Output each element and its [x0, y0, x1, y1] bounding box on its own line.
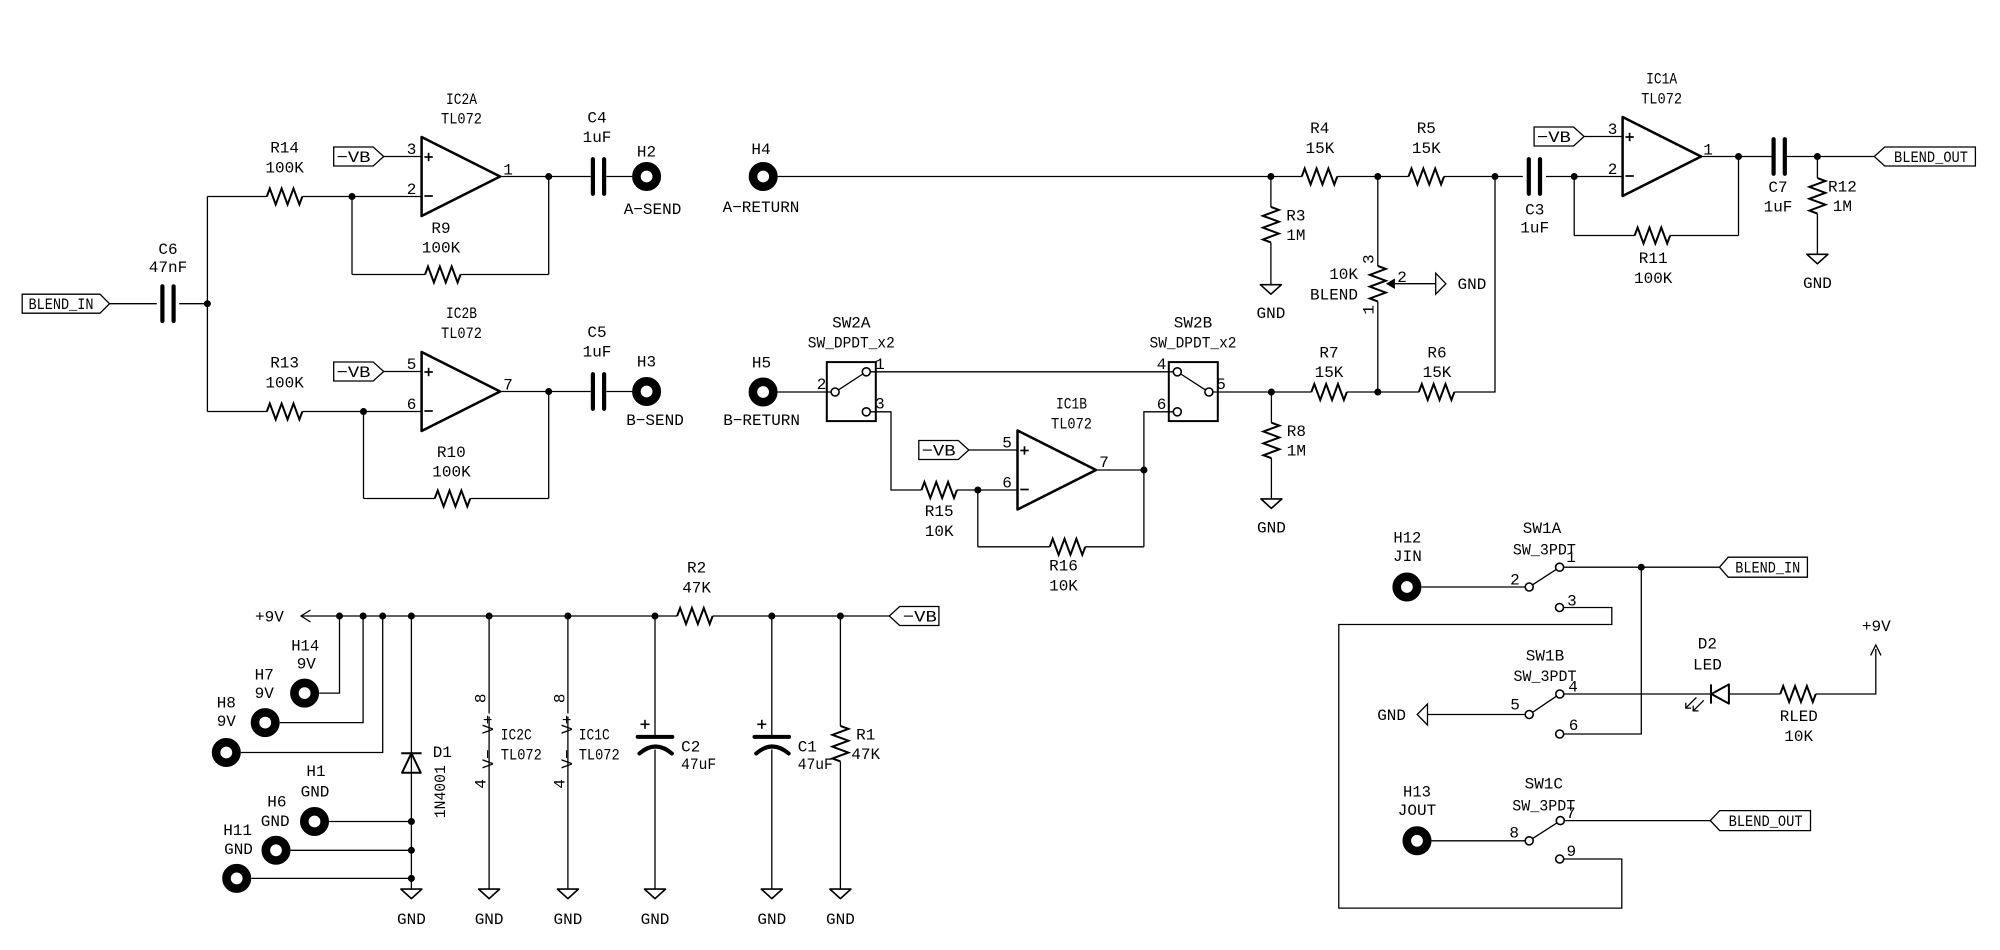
diode D1 1N4001 — [401, 616, 452, 889]
svg-text:IC1B: IC1B — [1056, 396, 1087, 414]
svg-text:+9V: +9V — [1862, 618, 1891, 636]
svg-text:D1: D1 — [433, 744, 452, 762]
svg-text:5: 5 — [1216, 376, 1226, 394]
svg-text:GND: GND — [1458, 276, 1487, 294]
svg-text:H4: H4 — [751, 141, 770, 159]
wire node riser to SW1B pin6 — [1564, 567, 1641, 734]
wire H6 to D1 line — [291, 849, 412, 851]
svg-text:D2: D2 — [1698, 636, 1717, 654]
wire R4 to node — [1337, 176, 1408, 178]
svg-text:2: 2 — [817, 376, 827, 394]
svg-text:IC1A: IC1A — [1646, 71, 1677, 89]
ground below D1 — [397, 889, 426, 929]
wire R2 to -VB tag — [713, 615, 890, 617]
svg-text:R5: R5 — [1417, 120, 1436, 138]
wire feedback bottom left — [364, 498, 435, 500]
svg-text:RLED: RLED — [1780, 708, 1818, 726]
svg-text:A−SEND: A−SEND — [624, 201, 682, 219]
wire node to pin 6 — [364, 411, 422, 413]
power symbol +9V rail — [255, 609, 311, 627]
wire SW1A pin3 loop to SW1C pin9 — [1339, 608, 1622, 909]
svg-text:V−: V− — [559, 749, 577, 768]
node IC2C V+ — [486, 613, 493, 620]
wire C5 to H3 — [606, 391, 632, 393]
svg-text:9V: 9V — [217, 713, 237, 731]
net label BLEND_OUT at SW1C — [1710, 811, 1810, 832]
svg-text:B−RETURN: B−RETURN — [723, 412, 800, 430]
svg-text:−VB: −VB — [922, 443, 956, 461]
svg-text:GND: GND — [641, 911, 670, 929]
svg-text:A−RETURN: A−RETURN — [723, 199, 800, 217]
op-amp power unit IC2C TL072 — [473, 616, 542, 889]
node IC1A inverting input — [1571, 173, 1578, 180]
hole H8 9V — [216, 695, 236, 763]
wire SW1B pin4 to LED — [1564, 693, 1711, 695]
svg-text:C6: C6 — [158, 241, 177, 259]
node H14 riser — [336, 613, 343, 620]
svg-text:SW_DPDT_x2: SW_DPDT_x2 — [808, 335, 895, 353]
capacitor C4 1uF — [583, 109, 612, 193]
wire R13 to node — [302, 411, 363, 413]
switch SW1C SW_3PDT — [1512, 775, 1575, 863]
wire H4 to R4 — [778, 176, 1271, 178]
wire R6 to riser — [1454, 177, 1495, 393]
svg-text:47nF: 47nF — [149, 259, 187, 277]
wire RLED to +9V — [1816, 649, 1876, 694]
node R8 tap — [1268, 389, 1275, 396]
svg-text:H2: H2 — [637, 144, 656, 162]
op-amp power unit IC1C TL072 — [551, 616, 619, 889]
op-amp IC1B TL072 — [1018, 396, 1097, 510]
svg-text:2: 2 — [407, 181, 417, 199]
svg-text:1M: 1M — [1287, 443, 1306, 461]
svg-text:2: 2 — [1510, 572, 1520, 590]
svg-text:GND: GND — [261, 813, 290, 831]
power tag -VB for IC2B — [334, 362, 384, 382]
svg-text:−VB: −VB — [337, 364, 371, 382]
node C2 top — [652, 613, 659, 620]
svg-text:8: 8 — [551, 693, 569, 703]
svg-text:IC2A: IC2A — [446, 91, 477, 109]
ground below R3 — [1256, 285, 1285, 324]
wire C4 to H2 — [606, 176, 632, 178]
hole H4 A-RETURN — [723, 141, 800, 217]
hole H14 9V — [291, 638, 319, 704]
svg-text:JIN: JIN — [1393, 548, 1422, 566]
ground below C2 — [641, 889, 670, 929]
svg-text:100K: 100K — [1634, 270, 1673, 288]
svg-text:1: 1 — [1566, 549, 1576, 567]
wire SW1C pin7 to BLEND_OUT — [1565, 820, 1711, 822]
resistor R2 47K — [677, 559, 713, 624]
wire feedback right riser — [548, 177, 550, 275]
svg-text:−VB: −VB — [337, 149, 371, 167]
svg-text:BLEND_OUT: BLEND_OUT — [1729, 813, 1803, 831]
svg-text:H14: H14 — [291, 638, 319, 656]
wire H12 to SW1A — [1422, 586, 1526, 588]
node C1 top — [768, 613, 775, 620]
svg-text:5: 5 — [1002, 435, 1012, 453]
wire feedback bottom left — [978, 546, 1050, 548]
wire H1 to D1 line — [329, 821, 411, 823]
capacitor C1 47uF polarized — [755, 616, 833, 889]
svg-text:9V: 9V — [297, 656, 317, 674]
svg-text:−VB: −VB — [903, 609, 937, 627]
switch SW2B SW_DPDT_x2 — [1150, 315, 1237, 422]
svg-text:100K: 100K — [265, 374, 304, 392]
svg-text:TL072: TL072 — [441, 325, 482, 343]
ground below R8 — [1257, 499, 1286, 538]
capacitor C3 1uF — [1520, 159, 1549, 237]
svg-text:IC1C: IC1C — [579, 726, 610, 744]
svg-text:1: 1 — [1361, 305, 1379, 315]
node IC2B inverting input — [360, 408, 367, 415]
hole H7 9V — [255, 667, 276, 733]
wire +9V rail left — [301, 615, 677, 617]
wire to R3 — [1270, 177, 1272, 208]
wire IC1A output — [1701, 156, 1773, 158]
svg-text:C4: C4 — [587, 109, 606, 127]
wire IC2A output — [500, 176, 549, 178]
wire IC1B output — [1096, 469, 1144, 471]
capacitor C5 1uF — [583, 324, 612, 409]
op-amp IC1A TL072 — [1623, 71, 1702, 196]
wire C7 to tag — [1785, 156, 1874, 158]
svg-text:R15: R15 — [925, 503, 954, 521]
svg-text:TL072: TL072 — [1641, 91, 1682, 109]
svg-text:47K: 47K — [851, 746, 880, 764]
switch SW2A SW_DPDT_x2 — [808, 315, 895, 422]
op-amp IC2B TL072 — [422, 305, 501, 431]
svg-text:R8: R8 — [1287, 423, 1306, 441]
wire R7 to node — [1347, 391, 1419, 393]
svg-text:C2: C2 — [681, 739, 700, 757]
svg-text:47uF: 47uF — [798, 756, 833, 774]
svg-text:9V: 9V — [255, 685, 275, 703]
wire to R14 — [207, 196, 267, 198]
node R1 top — [837, 613, 844, 620]
wire H8 to rail — [241, 616, 383, 753]
capacitor C7 1uF — [1764, 139, 1793, 216]
power tag -VB source — [889, 607, 939, 627]
svg-text:15K: 15K — [1423, 364, 1452, 382]
svg-text:TL072: TL072 — [501, 747, 542, 765]
svg-text:H7: H7 — [255, 667, 274, 685]
switch SW1B SW_3PDT — [1514, 648, 1577, 738]
svg-text:3: 3 — [407, 141, 417, 159]
svg-text:1N4001: 1N4001 — [432, 765, 450, 818]
svg-text:R11: R11 — [1639, 250, 1668, 268]
svg-text:H11: H11 — [223, 822, 252, 840]
node IC2A output — [545, 173, 552, 180]
svg-text:100K: 100K — [422, 240, 461, 258]
wire R15 to node — [957, 489, 1018, 491]
svg-text:10K: 10K — [1329, 266, 1358, 284]
svg-text:8: 8 — [1509, 825, 1519, 843]
ground below IC2C — [475, 889, 504, 929]
wire -VB to pin 5 — [969, 449, 1018, 451]
svg-text:5: 5 — [1510, 697, 1520, 715]
svg-text:SW2A: SW2A — [832, 315, 871, 333]
resistor R3 1M — [1263, 207, 1306, 245]
ground below R12 — [1803, 254, 1832, 292]
svg-text:R13: R13 — [270, 355, 299, 373]
svg-text:15K: 15K — [1305, 140, 1334, 158]
svg-text:1uF: 1uF — [583, 344, 612, 362]
svg-text:B−SEND: B−SEND — [626, 412, 684, 430]
svg-text:10K: 10K — [1049, 578, 1078, 596]
svg-text:TL072: TL072 — [579, 747, 620, 765]
svg-text:R6: R6 — [1427, 345, 1446, 363]
svg-text:6: 6 — [1157, 396, 1167, 414]
svg-text:GND: GND — [1377, 707, 1406, 725]
wire output to C4 — [549, 176, 591, 178]
svg-text:GND: GND — [1803, 275, 1832, 293]
net label BLEND_IN at SW1A — [1720, 557, 1808, 578]
wire feedback bottom left — [1574, 235, 1635, 237]
node H6 join — [408, 847, 415, 854]
svg-text:+9V: +9V — [255, 609, 284, 627]
resistor R12 1M — [1809, 178, 1856, 216]
wire SW2B pin5 to R7 — [1213, 391, 1311, 393]
resistor R4 15K — [1302, 120, 1338, 185]
svg-text:GND: GND — [1256, 305, 1285, 323]
svg-text:47uF: 47uF — [681, 756, 716, 774]
wire R12 to GND — [1816, 214, 1818, 255]
resistor R13 100K — [265, 355, 304, 420]
svg-text:5: 5 — [407, 356, 417, 374]
wire SW2A pin3 to R15 — [870, 412, 921, 490]
svg-text:H5: H5 — [752, 355, 771, 373]
wire node to R4 — [1271, 176, 1302, 178]
svg-text:V−: V− — [480, 749, 498, 768]
hole H2 A-SEND — [624, 144, 682, 219]
hole H12 JIN — [1393, 529, 1422, 597]
node H7 riser — [360, 613, 367, 620]
svg-text:R7: R7 — [1319, 345, 1338, 363]
capacitor C2 47uF polarized — [638, 616, 716, 889]
svg-text:6: 6 — [1002, 475, 1012, 493]
resistor R15 10K — [921, 482, 957, 541]
wire IC2B output — [500, 391, 549, 393]
node IC1B output — [1140, 467, 1147, 474]
wire feedback bottom right — [1670, 235, 1738, 237]
svg-text:R9: R9 — [431, 220, 450, 238]
wire R14 to node — [302, 196, 352, 198]
node H11 join — [408, 875, 415, 882]
node pot top tap — [1374, 173, 1381, 180]
hole H5 B-RETURN — [723, 355, 800, 430]
power tag -VB for IC1A — [1534, 127, 1584, 147]
wire R5 to node — [1444, 176, 1495, 178]
svg-text:GND: GND — [826, 911, 855, 929]
svg-text:15K: 15K — [1412, 140, 1441, 158]
svg-text:10K: 10K — [925, 523, 954, 541]
svg-text:SW_3PDT: SW_3PDT — [1514, 668, 1577, 686]
svg-text:R10: R10 — [437, 444, 466, 462]
svg-text:SW_DPDT_x2: SW_DPDT_x2 — [1150, 335, 1237, 353]
wire H13 to SW1C — [1432, 840, 1526, 842]
hole H1 GND — [301, 763, 330, 832]
hole H11 GND — [223, 822, 253, 888]
svg-text:4: 4 — [551, 779, 569, 789]
wire output to C5 — [549, 391, 591, 393]
svg-text:47K: 47K — [682, 580, 711, 598]
node IC2A inverting input — [349, 193, 356, 200]
wire to R12 — [1816, 157, 1818, 179]
net label GND at SW1B — [1377, 704, 1427, 725]
wire feedback bottom right — [470, 498, 548, 500]
resistor RLED 10K — [1780, 686, 1818, 746]
svg-text:BLEND: BLEND — [1310, 287, 1358, 305]
wire feedback right riser — [1738, 157, 1740, 236]
svg-text:H13: H13 — [1403, 783, 1431, 801]
svg-text:R12: R12 — [1828, 179, 1857, 197]
node R6 riser top — [1492, 173, 1499, 180]
wire node to SW2B pin6 — [1144, 412, 1173, 470]
hole H6 GND — [261, 794, 290, 861]
node LED branch — [1638, 564, 1645, 571]
svg-text:1M: 1M — [1286, 227, 1305, 245]
svg-text:8: 8 — [473, 693, 491, 703]
svg-text:H6: H6 — [267, 794, 286, 812]
wire C6 to node — [179, 303, 207, 305]
potentiometer BLEND 10K — [1310, 177, 1436, 393]
wire input riser — [206, 197, 208, 412]
resistor R14 100K — [265, 140, 304, 205]
node R12 tap — [1814, 153, 1821, 160]
svg-text:GND: GND — [224, 841, 253, 859]
net label BLEND_OUT — [1874, 147, 1975, 167]
svg-text:V+: V+ — [480, 715, 498, 734]
wire C3 to node — [1546, 176, 1623, 178]
wire feedback right riser — [548, 392, 550, 499]
wire feedback bottom right — [1085, 546, 1144, 548]
wire to R8 — [1270, 392, 1272, 423]
wire H14 to rail — [319, 616, 339, 693]
svg-text:7: 7 — [1099, 454, 1109, 472]
svg-text:R2: R2 — [687, 559, 706, 577]
svg-text:TL072: TL072 — [1051, 415, 1092, 433]
svg-text:JOUT: JOUT — [1398, 802, 1436, 820]
svg-text:2: 2 — [1608, 161, 1618, 179]
wire H11 to D1 line — [251, 877, 411, 879]
svg-text:4: 4 — [473, 779, 491, 789]
ground below R1 — [826, 889, 855, 929]
resistor R10 100K — [432, 444, 471, 507]
wire to R13 — [207, 411, 267, 413]
svg-text:R16: R16 — [1049, 558, 1078, 576]
svg-text:TL072: TL072 — [441, 111, 482, 129]
node IC1C V+ — [564, 613, 571, 620]
wire R8 to GND — [1270, 458, 1272, 499]
svg-text:1M: 1M — [1833, 198, 1852, 216]
resistor R1 47K — [832, 616, 880, 889]
svg-text:100K: 100K — [432, 463, 471, 481]
power symbol +9V at LED — [1862, 618, 1891, 656]
wire node to pin 2 — [352, 196, 422, 198]
capacitor C6 — [149, 241, 187, 321]
resistor R6 15K — [1419, 345, 1455, 400]
wire feedback bottom left — [352, 274, 425, 276]
svg-text:R4: R4 — [1310, 120, 1329, 138]
node input split — [204, 300, 211, 307]
svg-text:BLEND_OUT: BLEND_OUT — [1894, 149, 1968, 167]
svg-text:3: 3 — [875, 395, 885, 413]
wire BLEND_IN to C6 — [110, 303, 157, 305]
svg-text:C1: C1 — [798, 739, 817, 757]
wire feedback left IC2B — [363, 412, 365, 499]
svg-text:GND: GND — [1257, 519, 1286, 537]
resistor R5 15K — [1409, 120, 1445, 185]
node R3 tap — [1267, 173, 1274, 180]
svg-text:V+: V+ — [559, 715, 577, 734]
ground below C1 — [757, 889, 786, 929]
resistor R8 1M — [1263, 423, 1306, 461]
node H1 join — [408, 818, 415, 825]
svg-text:IC2B: IC2B — [446, 305, 477, 323]
svg-text:SW1A: SW1A — [1523, 520, 1562, 538]
node IC1B inverting input — [974, 487, 981, 494]
wire feedback left IC1A — [1573, 177, 1575, 236]
svg-text:4: 4 — [1157, 356, 1167, 374]
power tag -VB for IC1B — [919, 441, 969, 461]
svg-text:R14: R14 — [270, 140, 299, 158]
net label BLEND_IN — [22, 294, 109, 314]
svg-text:H12: H12 — [1393, 529, 1421, 547]
wire LED to RLED — [1729, 693, 1780, 695]
svg-text:SW1B: SW1B — [1526, 648, 1564, 666]
svg-text:C3: C3 — [1525, 201, 1544, 219]
svg-text:GND: GND — [757, 911, 786, 929]
svg-text:R3: R3 — [1286, 208, 1305, 226]
svg-text:15K: 15K — [1315, 364, 1344, 382]
node pot bottom tap — [1374, 389, 1381, 396]
svg-text:H3: H3 — [637, 354, 656, 372]
wire SW1A pin1 to BLEND_IN — [1564, 566, 1720, 568]
svg-text:LED: LED — [1693, 657, 1722, 675]
net label GND at pot wiper — [1436, 273, 1487, 294]
LED D2 — [1686, 636, 1729, 711]
svg-text:10K: 10K — [1784, 728, 1813, 746]
svg-text:6: 6 — [1569, 717, 1579, 735]
svg-text:3: 3 — [1608, 121, 1618, 139]
svg-text:H1: H1 — [306, 763, 325, 781]
svg-text:2: 2 — [1397, 269, 1407, 287]
svg-text:−VB: −VB — [1537, 129, 1571, 147]
svg-text:GND: GND — [397, 911, 426, 929]
resistor R9 100K — [422, 220, 461, 283]
svg-text:9: 9 — [1566, 843, 1576, 861]
wire feedback right riser — [1143, 470, 1145, 547]
svg-text:H8: H8 — [217, 695, 236, 713]
svg-text:6: 6 — [407, 396, 417, 414]
wire feedback bottom right — [461, 274, 549, 276]
wire -VB to pin 3 — [1584, 136, 1623, 138]
svg-text:BLEND_IN: BLEND_IN — [1735, 560, 1800, 578]
switch SW1A SW_3PDT — [1513, 520, 1576, 611]
svg-text:GND: GND — [301, 784, 330, 802]
node H8 riser — [379, 613, 386, 620]
svg-text:GND: GND — [553, 911, 582, 929]
svg-text:SW2B: SW2B — [1174, 315, 1212, 333]
wire H7 to rail — [280, 616, 363, 723]
svg-text:1uF: 1uF — [1764, 198, 1793, 216]
svg-text:IC2C: IC2C — [501, 726, 532, 744]
wire feedback left IC2A — [351, 197, 353, 275]
hole H3 B-SEND — [626, 354, 684, 431]
node IC1A output — [1735, 153, 1742, 160]
